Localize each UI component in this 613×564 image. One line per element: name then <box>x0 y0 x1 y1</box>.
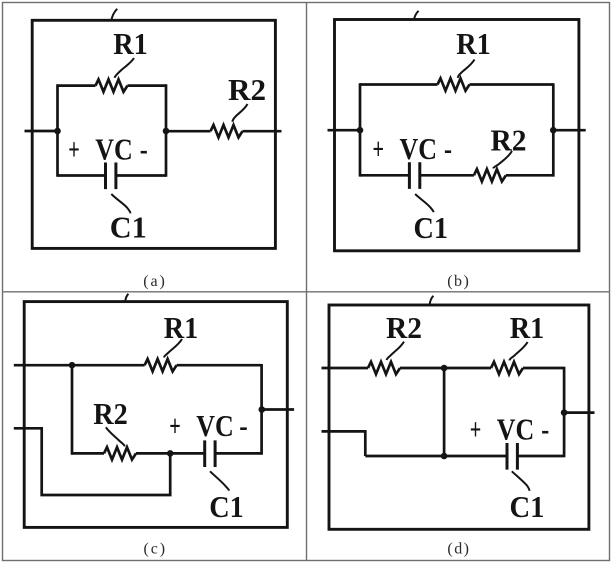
svg-text:R2: R2 <box>386 310 422 345</box>
svg-text:VC: VC <box>497 412 535 447</box>
svg-text:-: - <box>239 408 248 443</box>
svg-text:+: + <box>373 131 385 166</box>
svg-text:(a): (a) <box>143 273 165 290</box>
svg-text:-: - <box>541 412 549 447</box>
svg-text:(b): (b) <box>447 273 469 290</box>
svg-text:+: + <box>470 412 482 447</box>
svg-text:R1: R1 <box>456 26 491 61</box>
svg-text:+: + <box>68 132 80 167</box>
svg-text:C1: C1 <box>110 210 147 245</box>
svg-text:C1: C1 <box>510 489 545 524</box>
svg-text:+: + <box>169 408 181 443</box>
svg-text:R1: R1 <box>510 310 545 345</box>
svg-text:-: - <box>444 131 452 166</box>
svg-text:C1: C1 <box>414 210 449 245</box>
svg-text:-: - <box>140 132 148 167</box>
svg-text:(d): (d) <box>447 540 469 557</box>
svg-text:VC: VC <box>196 408 234 443</box>
svg-text:R2: R2 <box>228 72 266 107</box>
svg-text:C1: C1 <box>209 489 244 524</box>
svg-text:R1: R1 <box>164 310 199 345</box>
svg-text:VC: VC <box>95 132 133 167</box>
svg-text:R1: R1 <box>113 26 148 61</box>
svg-text:(c): (c) <box>144 541 166 558</box>
svg-text:R2: R2 <box>491 122 527 157</box>
svg-text:R2: R2 <box>93 396 128 431</box>
svg-text:VC: VC <box>400 131 438 166</box>
